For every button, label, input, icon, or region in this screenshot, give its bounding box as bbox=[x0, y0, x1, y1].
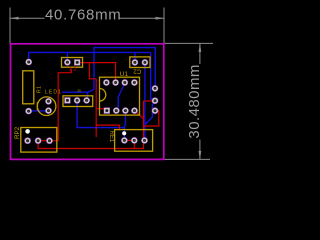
U1 pin 5 bbox=[131, 79, 138, 86]
wire blue U1 zigzag bbox=[116, 83, 125, 111]
J1 pad 2 bbox=[74, 97, 81, 104]
wire red J2 pad2 to U1 pin bbox=[77, 63, 115, 83]
RP2 pad 2 bbox=[35, 137, 42, 144]
svg-text:U1: U1 bbox=[120, 71, 129, 78]
top dimension line bbox=[10, 17, 164, 19]
svg-text:RP2: RP2 bbox=[14, 126, 21, 139]
LED1 flat chord bbox=[36, 102, 38, 110]
J1 pad 1 bbox=[64, 97, 70, 103]
arrow up bbox=[199, 43, 202, 52]
resistor R1 body bbox=[23, 71, 34, 104]
dimension extension line left (x=10) bbox=[9, 8, 11, 44]
relay RE1 body bbox=[115, 130, 153, 152]
J2 pad 1 bbox=[64, 59, 71, 66]
RP2 pad 1 bbox=[24, 137, 31, 144]
U1 pin 8 bbox=[103, 79, 110, 86]
right dimension line bbox=[199, 43, 201, 159]
wire red right bottom pad loop bbox=[144, 111, 159, 126]
wire red U1 pad diag bbox=[135, 111, 144, 119]
wire blue J1 pad2 L bbox=[77, 101, 125, 128]
right column pad A bbox=[152, 85, 159, 92]
wire red branch down at x=89 bbox=[89, 63, 96, 79]
svg-text:40.768mm: 40.768mm bbox=[45, 6, 121, 23]
wire red J2 label link down-left bbox=[58, 69, 71, 141]
wire blue R1 pad to LED1 pad bbox=[29, 110, 49, 112]
U1 pin 3 bbox=[122, 107, 129, 114]
wire red to right middle pad bbox=[144, 100, 156, 102]
J1 pad 3 bbox=[83, 97, 90, 104]
U1 pin 2 bbox=[113, 107, 120, 114]
wire blue drop to C2 pad1 bbox=[134, 52, 136, 61]
right column pad B bbox=[152, 97, 159, 104]
wire blue line2 drop right bbox=[151, 52, 155, 100]
RE1 pin1 dot bbox=[122, 131, 126, 135]
right column pad C bbox=[152, 107, 159, 114]
J2 pad 2 bbox=[74, 59, 80, 65]
wire blue middle pad diagonal bbox=[145, 102, 155, 125]
svg-text:RE1: RE1 bbox=[108, 131, 114, 143]
svg-text:LED1: LED1 bbox=[45, 89, 62, 95]
right dimension extension bottom bbox=[164, 158, 210, 160]
wire blue to J1 pad3 bbox=[88, 89, 95, 100]
wire blue C2 pad2 down to RE1 pad3 bbox=[144, 62, 146, 140]
RE1 pad 1 bbox=[121, 137, 128, 144]
RE1 pad 3 bbox=[141, 137, 148, 144]
dimension extension line right (x=164) bbox=[163, 8, 165, 44]
U1 pin 7 bbox=[112, 79, 119, 86]
svg-text:J2: J2 bbox=[69, 67, 78, 73]
svg-text:R1: R1 bbox=[36, 86, 42, 93]
arrow down bbox=[199, 151, 202, 160]
via pad top-left bbox=[25, 59, 32, 66]
RP2 pin1 dot bbox=[25, 129, 30, 134]
op-amp U1 body bbox=[100, 77, 140, 115]
U1 notch bbox=[100, 89, 106, 102]
wire red RE1 pads link bbox=[124, 140, 134, 148]
right dimension extension top bbox=[164, 42, 213, 44]
wire red RP2 middle pad bottom bus bbox=[38, 101, 143, 149]
RE1 pad 2 bbox=[131, 137, 138, 144]
LED1 pad cathode bbox=[45, 107, 52, 114]
capacitor C2 body bbox=[130, 57, 150, 68]
U1 pin 1 bbox=[104, 107, 110, 113]
wire red vertical x=96 bbox=[95, 79, 97, 137]
header J1 body bbox=[63, 96, 93, 107]
C2 pad 2 bbox=[142, 59, 149, 66]
board outline bbox=[11, 44, 164, 160]
wire blue bus top bbox=[29, 52, 151, 62]
U1 pin 4 bbox=[131, 107, 138, 114]
wire blue line1 top bbox=[94, 48, 155, 90]
wire red link to U1 square pad bbox=[96, 109, 106, 111]
header J2 body bbox=[62, 58, 83, 68]
LED1 body bbox=[37, 97, 56, 116]
wire blue U1 pin3 to RE1 pad1 bbox=[124, 111, 125, 141]
arrow left bbox=[10, 17, 19, 20]
LED1 pad anode bbox=[45, 98, 52, 105]
wire red to RE1 box bbox=[96, 125, 119, 130]
svg-text:30.480mm: 30.480mm bbox=[186, 64, 203, 138]
svg-text:C2: C2 bbox=[133, 67, 141, 74]
U1 pin 6 bbox=[121, 79, 128, 86]
wire blue drop to J2 pad1 bbox=[66, 52, 68, 61]
wire blue stub left of J1 pad3 bbox=[62, 91, 87, 93]
buzzer RP2 body bbox=[21, 128, 57, 153]
RP2 pad 3 bbox=[46, 137, 53, 144]
wire red RP2 pads link bbox=[38, 140, 58, 142]
resistor R1 bottom pad bbox=[25, 108, 32, 115]
C2 pad 1 bbox=[132, 59, 139, 66]
arrow right bbox=[156, 17, 165, 20]
